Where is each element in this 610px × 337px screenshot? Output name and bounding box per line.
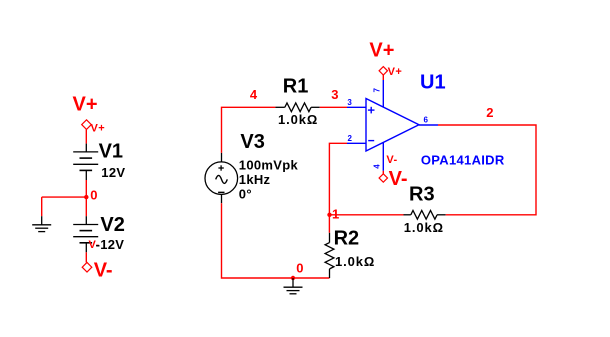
svg-text:V-: V- bbox=[389, 168, 408, 190]
wire node 1 to R3 bbox=[330, 214, 404, 216]
svg-text:R3: R3 bbox=[409, 183, 435, 205]
svg-text:V1: V1 bbox=[99, 141, 123, 163]
wire V3 top to R1 (left vertical) bbox=[222, 107, 276, 153]
V1 top pin stub bbox=[85, 144, 87, 152]
global connector diamond V+ (op-amp) bbox=[379, 67, 387, 75]
op-amp - input pin (pin 2) bbox=[347, 142, 366, 144]
node 0 junction dot (bottom) bbox=[291, 276, 295, 280]
svg-text:1: 1 bbox=[332, 206, 339, 221]
wire V2 bottom to V- connector bbox=[85, 252, 87, 262]
svg-text:V2: V2 bbox=[100, 214, 124, 236]
resistor R3 bbox=[404, 210, 446, 219]
op-amp V+ supply pin (pin 7) bbox=[382, 80, 384, 107]
svg-text:V-: V- bbox=[386, 154, 397, 166]
svg-text:2: 2 bbox=[486, 105, 493, 120]
global connector diamond V+ (left rail) bbox=[82, 120, 92, 130]
svg-text:R1: R1 bbox=[283, 76, 309, 98]
ac source V3 bbox=[205, 153, 238, 203]
wire R1 to op-amp + input bbox=[320, 106, 347, 108]
wire node 0 to V2 bbox=[85, 197, 87, 216]
svg-text:U1: U1 bbox=[420, 71, 446, 93]
battery V2 bbox=[73, 225, 98, 253]
resistor R1 bbox=[275, 103, 319, 112]
resistor R2 bbox=[325, 233, 334, 278]
svg-text:-12V: -12V bbox=[96, 237, 125, 252]
svg-text:1.0kΩ: 1.0kΩ bbox=[278, 112, 318, 127]
svg-text:4: 4 bbox=[372, 164, 381, 169]
op-amp U1 triangle bbox=[366, 99, 419, 152]
battery V1 bbox=[73, 152, 98, 180]
svg-text:3: 3 bbox=[331, 87, 338, 102]
svg-text:2: 2 bbox=[348, 134, 353, 143]
svg-text:V+: V+ bbox=[369, 40, 394, 62]
svg-text:0: 0 bbox=[296, 261, 303, 276]
wire V- connector stub (op-amp) bbox=[382, 171, 384, 174]
ground (bottom) bbox=[284, 278, 303, 294]
svg-text:7: 7 bbox=[373, 88, 382, 93]
svg-text:V+: V+ bbox=[73, 94, 98, 116]
node 0 junction dot (left) bbox=[84, 195, 88, 199]
svg-text:R2: R2 bbox=[334, 227, 360, 249]
op-amp + symbol bbox=[368, 107, 375, 114]
node 1 junction dot bbox=[327, 213, 331, 217]
global connector diamond V- (op-amp) bbox=[379, 174, 387, 182]
op-amp V- supply pin (pin 4) bbox=[382, 142, 384, 170]
svg-text:100mVpk: 100mVpk bbox=[239, 157, 299, 172]
svg-text:12V: 12V bbox=[101, 165, 125, 180]
svg-text:0°: 0° bbox=[239, 186, 252, 201]
svg-text:1kHz: 1kHz bbox=[239, 172, 271, 187]
svg-text:1.0kΩ: 1.0kΩ bbox=[404, 220, 444, 235]
svg-text:0: 0 bbox=[90, 188, 97, 203]
svg-text:V-: V- bbox=[94, 260, 113, 282]
wire down to left ground bbox=[41, 197, 43, 216]
op-amp output pin (pin 6) bbox=[419, 124, 438, 126]
svg-text:6: 6 bbox=[424, 115, 429, 124]
wire V1 bottom to node 0 bbox=[85, 180, 87, 197]
svg-text:OPA141AIDR: OPA141AIDR bbox=[421, 152, 505, 167]
wire R3 to output (feedback loop) bbox=[438, 125, 536, 215]
svg-text:V3: V3 bbox=[240, 131, 264, 153]
V2 top pin stub bbox=[85, 216, 87, 224]
wire V+ connector stub (op-amp) bbox=[382, 75, 384, 80]
wire V3 bottom to ground rail bbox=[222, 203, 330, 278]
wire node 0 to left ground bbox=[42, 196, 87, 198]
svg-text:V+: V+ bbox=[91, 123, 106, 135]
op-amp - symbol bbox=[368, 140, 374, 142]
wire op-amp - input down to node 1 bbox=[329, 143, 347, 233]
wire V+ connector to V1 bbox=[85, 129, 87, 143]
svg-text:1.0kΩ: 1.0kΩ bbox=[335, 254, 375, 269]
svg-text:4: 4 bbox=[250, 87, 258, 102]
op-amp + input pin (pin 3) bbox=[347, 106, 366, 108]
ground (left) bbox=[32, 216, 51, 231]
svg-text:V+: V+ bbox=[388, 66, 403, 78]
svg-text:3: 3 bbox=[347, 98, 352, 107]
global connector diamond V- (left rail) bbox=[82, 262, 92, 272]
